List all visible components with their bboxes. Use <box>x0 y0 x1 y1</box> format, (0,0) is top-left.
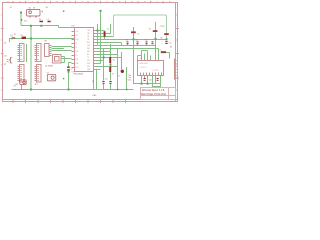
svg-text:R2: R2 <box>21 35 23 37</box>
svg-text:B1: B1 <box>14 86 16 88</box>
svg-text:T1: T1 <box>118 75 120 77</box>
svg-text:R6: R6 <box>160 37 162 39</box>
svg-text:R3: R3 <box>39 19 41 21</box>
svg-text:CS: CS <box>76 55 78 57</box>
svg-text:LED2: LED2 <box>128 79 132 81</box>
svg-text:WOL: WOL <box>76 39 79 41</box>
svg-text:C7: C7 <box>71 69 73 71</box>
svg-text:SP: SP <box>4 64 6 66</box>
svg-text:RX: RX <box>87 54 89 56</box>
svg-text:C10: C10 <box>105 79 108 81</box>
svg-text:JP2: JP2 <box>44 41 47 43</box>
svg-text:VDD: VDD <box>87 51 90 53</box>
svg-text:JP3: JP3 <box>35 84 38 86</box>
svg-text:C4: C4 <box>107 29 109 31</box>
svg-text:TPIN: TPIN <box>160 26 165 28</box>
svg-text:VSS: VSS <box>72 72 75 74</box>
svg-text:Q2: Q2 <box>4 43 6 45</box>
svg-text:L3: L3 <box>160 49 162 51</box>
svg-text:Q1 25MHz: Q1 25MHz <box>45 65 53 67</box>
svg-text:LDB: LDB <box>87 66 90 68</box>
svg-text:C12: C12 <box>125 40 128 42</box>
svg-text:R1: R1 <box>14 34 16 36</box>
svg-text:RST: RST <box>76 59 79 61</box>
svg-text:LS1: LS1 <box>4 56 7 58</box>
svg-text:D1: D1 <box>11 35 13 37</box>
svg-text:TX: TX <box>87 57 89 59</box>
svg-text:L1: L1 <box>47 19 49 21</box>
svg-text:VSS: VSS <box>87 69 90 71</box>
svg-text:PHY: PHY <box>87 48 90 50</box>
svg-text:C13: C13 <box>135 40 138 42</box>
svg-text:G2: G2 <box>47 73 49 75</box>
svg-text:CLK: CLK <box>76 31 79 33</box>
svg-text:C8: C8 <box>113 59 115 61</box>
svg-text:C14: C14 <box>145 40 148 42</box>
svg-text:C9: C9 <box>112 74 114 76</box>
svg-text:TCT RCT: TCT RCT <box>153 70 159 72</box>
svg-text:R5: R5 <box>149 28 151 30</box>
svg-text:J1: J1 <box>140 58 142 60</box>
svg-text:R8: R8 <box>170 47 172 49</box>
svg-text:INT: INT <box>76 35 78 37</box>
svg-text:X2: X2 <box>92 81 94 83</box>
svg-text:1 2 3 4 5 6: 1 2 3 4 5 6 <box>140 67 147 69</box>
svg-text:C16: C16 <box>149 79 152 81</box>
svg-text:VSS: VSS <box>76 67 79 69</box>
svg-text:SCK: SCK <box>76 51 79 53</box>
svg-text:C15: C15 <box>169 42 172 44</box>
svg-text:L2: L2 <box>137 34 139 36</box>
svg-text:VDD: VDD <box>87 45 90 47</box>
svg-text:ENC28J60: ENC28J60 <box>74 73 85 75</box>
svg-text:Ethernet Demo 1.1 B: Ethernet Demo 1.1 B <box>142 89 165 92</box>
svg-text:Matt Hodge 15.02.2012: Matt Hodge 15.02.2012 <box>141 93 167 96</box>
svg-text:VDD: VDD <box>87 60 90 62</box>
